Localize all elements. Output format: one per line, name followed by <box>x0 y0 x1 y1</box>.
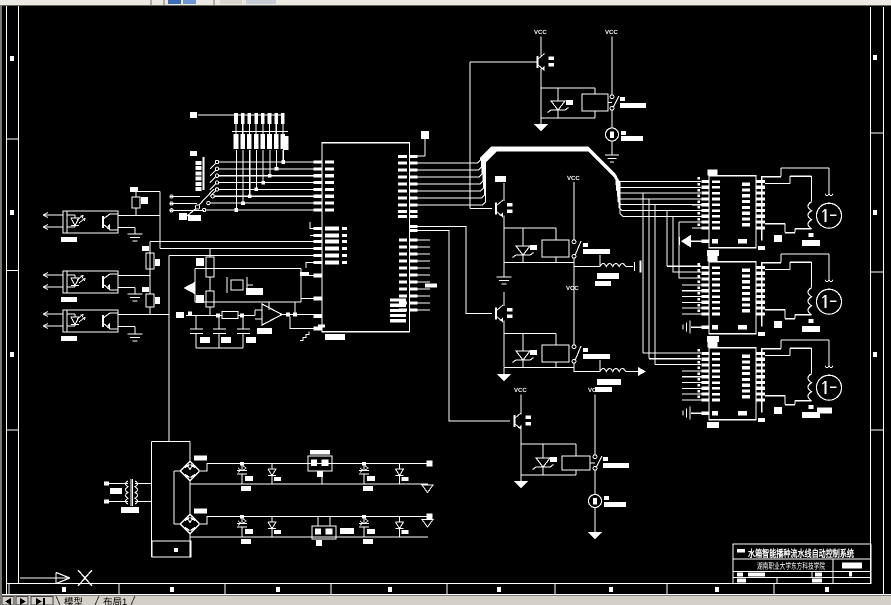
wire <box>504 334 574 368</box>
ground <box>534 118 548 132</box>
LED <box>71 278 79 286</box>
resistor network RP1 <box>190 112 289 150</box>
wire input A <box>43 313 63 315</box>
wire right pins <box>765 224 795 233</box>
IC U1 left pins port A <box>314 160 335 211</box>
bus branch to module U4 <box>667 211 701 278</box>
drive circuit 1 group <box>470 29 646 162</box>
layout tab bar <box>0 595 891 605</box>
title block <box>733 544 871 584</box>
wire <box>504 321 556 350</box>
wire cap common <box>196 347 243 349</box>
resistor R11 ladder <box>142 246 160 269</box>
capacitor C6 <box>218 316 220 330</box>
voltage regulator VR2 <box>312 517 354 547</box>
capacitor C7 <box>242 316 244 330</box>
IC U1 bottom corner details <box>300 325 345 341</box>
wire <box>611 37 613 96</box>
IC U1 left pins group 2 <box>306 222 339 268</box>
label <box>707 422 719 428</box>
inductor coil <box>808 288 812 315</box>
svg-text:VCC: VCC <box>605 29 618 36</box>
wire opto U7 emitter to ground <box>118 327 135 335</box>
transistor Q4 <box>515 413 532 430</box>
phototransistor <box>102 216 104 228</box>
wire input B <box>43 325 63 327</box>
IC U1 right pins group2 <box>399 225 437 312</box>
wire <box>541 88 595 118</box>
motor M3 label <box>817 407 832 413</box>
bus branch to module U3 <box>643 193 701 364</box>
zener diode <box>513 244 534 258</box>
relay contact S-K1 <box>610 95 619 110</box>
diode D2 <box>396 464 409 485</box>
wire motor feed outer <box>762 254 830 280</box>
label S1 <box>179 213 187 220</box>
wire opto U5 emitter to ground <box>118 228 135 235</box>
ground <box>128 294 143 301</box>
label <box>61 336 77 341</box>
wire <box>611 141 613 155</box>
capacitor C5 <box>195 316 197 330</box>
resistor R15 <box>222 312 238 319</box>
drive circuit 2 group <box>495 176 641 286</box>
label <box>707 336 719 342</box>
svg-text:VCC: VCC <box>567 175 580 182</box>
wire base <box>470 61 538 63</box>
IC U1 inner labels <box>342 227 406 323</box>
wire motor feed outer <box>762 340 830 366</box>
svg-text:布局1: 布局1 <box>103 597 127 605</box>
IC U1 89C51 body <box>322 143 410 332</box>
wire pole inputs <box>170 196 200 198</box>
relay contact S-K4 <box>593 455 602 470</box>
capacitor C3 <box>359 462 375 491</box>
optocoupler U6 <box>43 271 118 302</box>
switch S1 rotary <box>170 151 214 216</box>
wire <box>573 259 575 346</box>
wire opto U5 output <box>118 192 314 249</box>
crystal Y1 <box>231 280 243 290</box>
wire pullup rail <box>136 191 160 193</box>
resistor R13 <box>196 249 214 286</box>
wiper <box>195 205 199 209</box>
wire right pins <box>765 310 795 319</box>
wire XTAL to IC <box>301 276 314 299</box>
wire primary <box>107 484 128 502</box>
driver module U3 <box>682 254 842 342</box>
capacitor C8 <box>237 515 253 544</box>
UCS icon <box>20 570 92 586</box>
relay contact S-K2 <box>572 240 581 258</box>
motor M3 <box>817 375 842 400</box>
wire <box>520 395 522 415</box>
wire opto U7 output <box>118 256 314 442</box>
window left edge <box>0 5 2 605</box>
ground <box>128 334 143 341</box>
pin bar <box>761 262 763 327</box>
pin bar <box>761 348 763 413</box>
wire motor feed inner <box>765 176 812 202</box>
optocoupler U5 <box>43 211 118 242</box>
label <box>61 297 77 302</box>
wire <box>573 182 575 240</box>
transistor Q3 <box>496 305 513 322</box>
motor M1 <box>817 203 842 228</box>
wire output to IC <box>282 314 314 316</box>
svg-text:VCC: VCC <box>514 387 527 394</box>
wire <box>611 110 613 128</box>
bridge rectifier BR2 <box>181 509 208 535</box>
wire sensor tap <box>574 255 600 267</box>
wire collector <box>503 292 505 306</box>
ground <box>497 263 512 285</box>
drive circuit 3 group <box>496 175 646 392</box>
svg-text:VCC: VCC <box>566 285 579 292</box>
wire collector <box>503 183 505 201</box>
diode D1 <box>268 464 281 485</box>
zener diode <box>513 349 534 363</box>
ground <box>497 368 511 382</box>
zener diode <box>533 456 554 470</box>
crystal Y1 loop <box>195 269 301 303</box>
label <box>61 237 77 242</box>
transistor Q2 <box>496 200 513 217</box>
wire base Q1-Q2 <box>470 62 492 209</box>
indicator lamp HL1 <box>606 128 619 141</box>
wire +12V rail pair <box>190 464 428 485</box>
ground <box>128 234 143 241</box>
diode D3 <box>268 517 281 538</box>
wire right pins <box>765 396 795 405</box>
wire motor feed inner <box>765 348 812 374</box>
phototransistor <box>102 315 104 327</box>
resistor R12 ladder <box>142 276 160 315</box>
relay contact S-K3 <box>572 345 581 363</box>
RC filter network <box>176 310 256 348</box>
ground <box>514 475 528 489</box>
LED <box>71 317 79 325</box>
drive circuit 4 group <box>514 387 629 540</box>
wire <box>608 102 612 104</box>
svg-text:湖南职业大学东方科技学院: 湖南职业大学东方科技学院 <box>757 561 825 571</box>
ground <box>689 321 691 334</box>
svg-text:VCC: VCC <box>534 29 547 36</box>
wire input A <box>43 274 63 276</box>
capacitor C10 <box>359 515 375 544</box>
wire <box>541 69 595 100</box>
wire fan switch to IC port <box>202 160 313 211</box>
wire <box>594 470 596 495</box>
wire input A <box>43 214 63 216</box>
inductor sense L1 <box>600 264 626 267</box>
zener diode <box>548 99 569 113</box>
phototransistor <box>102 276 104 288</box>
wire base Q4 from IC <box>418 231 511 422</box>
ground rail 2 <box>422 520 433 528</box>
pull-up pad top right <box>418 131 430 156</box>
op-amp U8 <box>255 302 314 334</box>
svg-text:模型: 模型 <box>64 597 84 605</box>
svg-text:VCC: VCC <box>588 387 601 394</box>
LED <box>71 218 79 226</box>
node +12V label <box>495 176 506 182</box>
diode D4 <box>396 517 409 538</box>
wire -12V rail pair <box>190 517 428 538</box>
relay coil K1 <box>582 94 608 111</box>
wire <box>504 216 556 245</box>
bridge rectifier BR1 <box>181 456 208 482</box>
voltage regulator VR1 <box>308 450 332 484</box>
node +5V out <box>427 461 433 467</box>
toolbar sliver (window chrome) <box>0 0 891 6</box>
wire bridge link <box>189 481 191 514</box>
wire from A/D section <box>168 441 170 443</box>
resistor R14 <box>196 285 214 316</box>
label <box>707 250 719 256</box>
bus IC to modules <box>418 147 702 216</box>
inductor sense L2 <box>600 369 626 372</box>
wire <box>521 444 576 475</box>
resistor network riser wires <box>235 150 286 212</box>
transformer T1 <box>104 479 139 513</box>
wire opto U6 output <box>118 242 314 276</box>
wire secondary loop <box>135 442 190 558</box>
wire <box>594 395 596 456</box>
ground <box>605 155 619 162</box>
wire sensor tap <box>574 360 600 372</box>
wire <box>594 508 596 527</box>
wire feedback <box>269 302 295 315</box>
wire base Q3 from IC <box>418 227 493 314</box>
ground rail 1 <box>422 485 433 493</box>
wire loop bottom box <box>152 541 191 557</box>
ground <box>689 407 691 420</box>
wire input B <box>43 286 63 288</box>
wire <box>504 228 574 263</box>
transistor Q1 <box>538 54 555 71</box>
wire motor feed inner <box>765 262 812 288</box>
resistor R10 pullup <box>130 187 160 216</box>
motor M2 <box>817 289 842 314</box>
inductor coil <box>808 202 812 229</box>
driver module U2 <box>680 168 842 256</box>
pin bar <box>761 176 763 241</box>
ground <box>681 235 691 248</box>
optocoupler U7 <box>43 310 118 341</box>
wire opto U6 emitter to ground <box>118 288 135 295</box>
wire input B <box>43 226 63 228</box>
label T1 <box>121 507 139 513</box>
wire <box>521 428 576 457</box>
indicator lamp HL2 <box>589 495 602 508</box>
relay coil K2 <box>542 240 569 257</box>
IC U1 right pins bus port <box>398 155 418 218</box>
node -5V out <box>427 514 433 520</box>
svg-text:水箱智能播种流水线自动控制系统: 水箱智能播种流水线自动控制系统 <box>748 548 854 560</box>
IC U1 left lower pins <box>300 272 322 330</box>
driver module U4 <box>682 340 842 428</box>
relay coil K3 <box>542 345 569 362</box>
wire <box>540 37 542 56</box>
inductor coil <box>808 374 812 401</box>
relay coil K4 <box>562 456 590 470</box>
wire motor feed outer <box>762 168 830 194</box>
capacitor C1 <box>237 462 253 491</box>
ground <box>588 526 602 540</box>
wire <box>590 462 595 464</box>
ground arrow left <box>184 282 196 295</box>
